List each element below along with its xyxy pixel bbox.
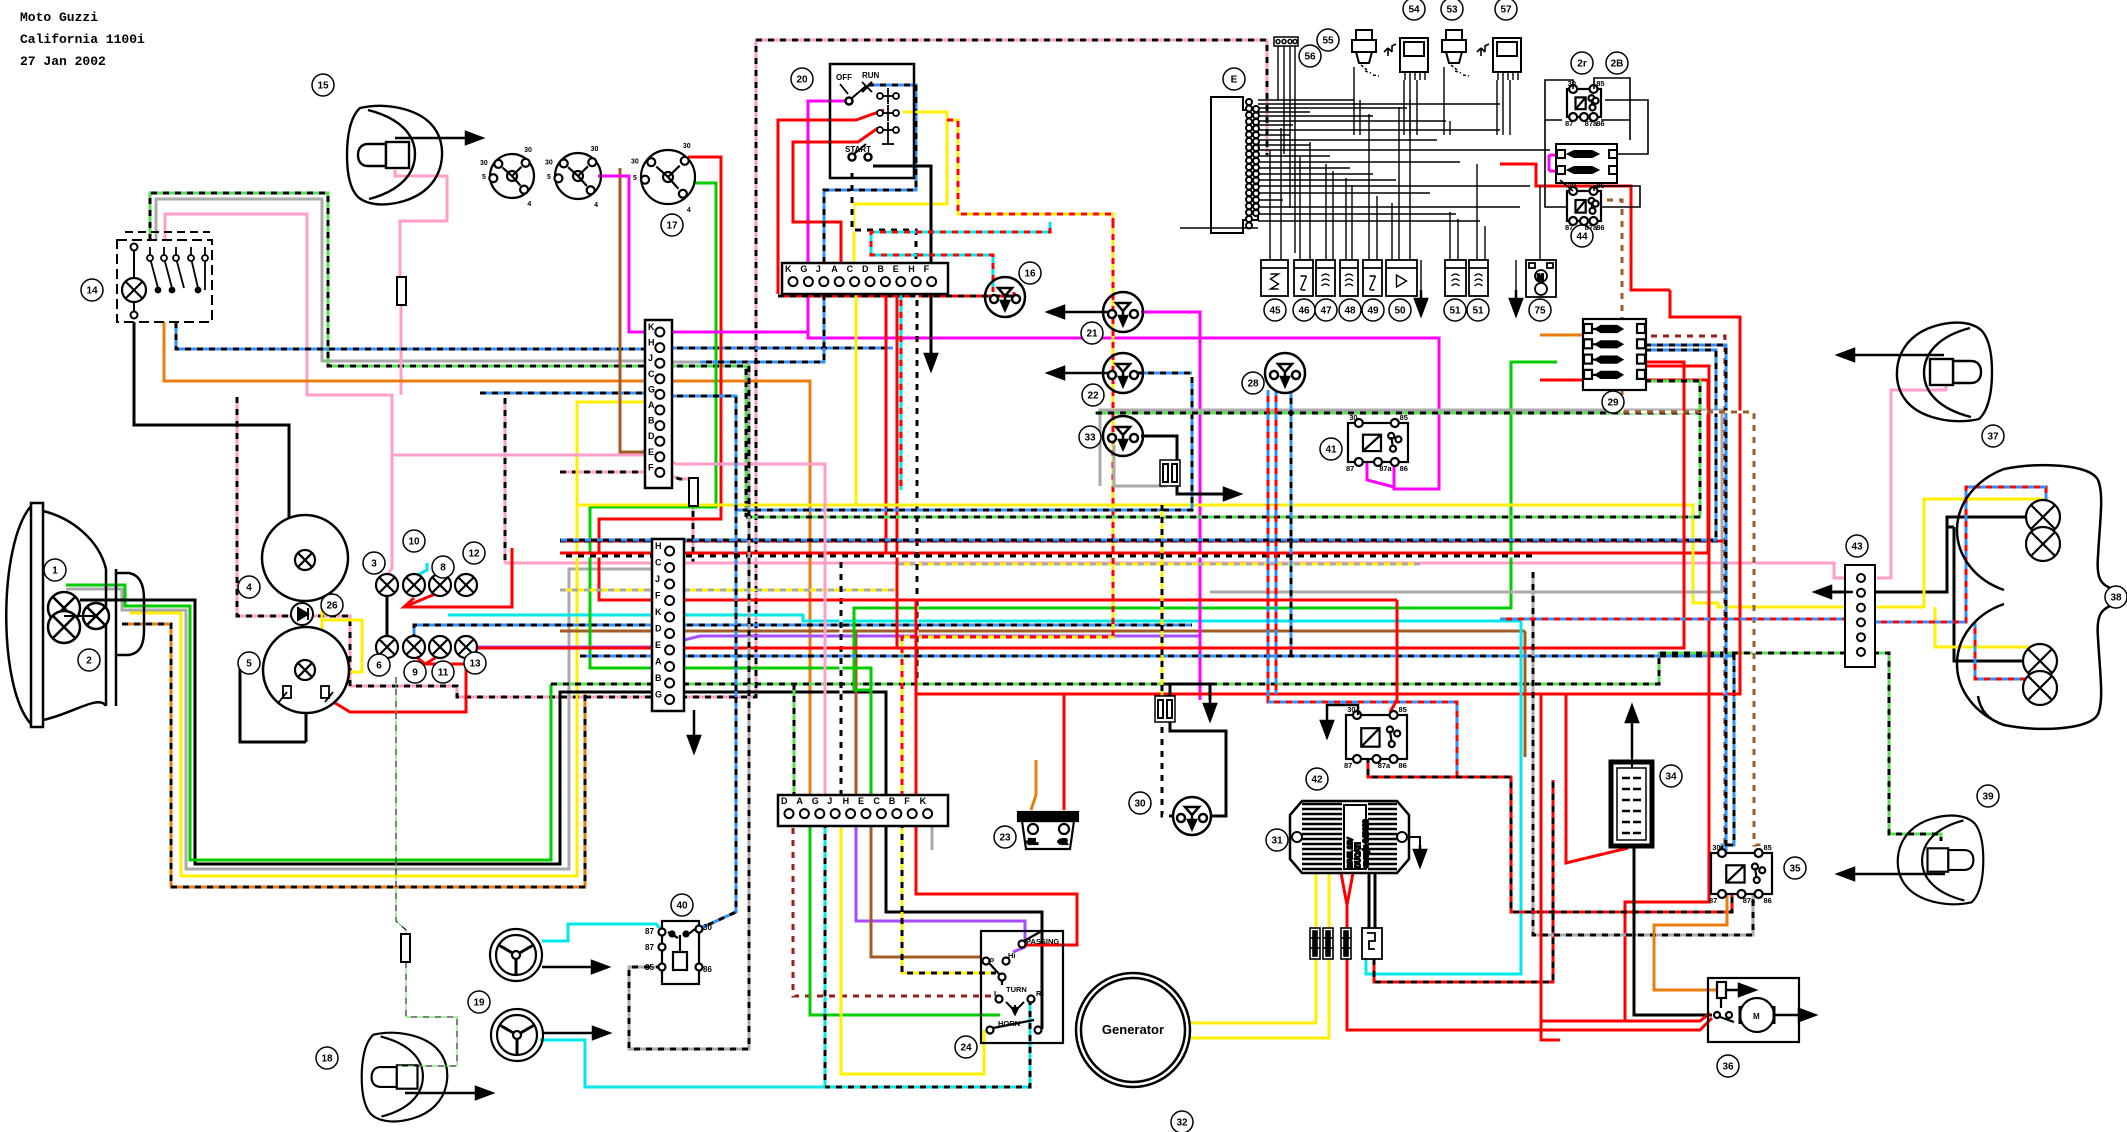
svg-text:Moto Guzzi: Moto Guzzi (20, 10, 98, 25)
headlight city bulb (83, 603, 109, 629)
svg-text:27 Jan 2002: 27 Jan 2002 (20, 54, 106, 69)
label 2r (1571, 52, 1593, 74)
label 34 (1660, 765, 1682, 787)
wire magenta indicator 21 (1141, 312, 1200, 700)
wire black/white lamp30 (1162, 721, 1173, 816)
wire violet right (668, 636, 1199, 647)
arrow signal 39 (1838, 868, 1945, 880)
arrow fuse33 (1200, 488, 1240, 500)
connector block (1310, 928, 1320, 959)
wire red/black 87a (1368, 757, 1732, 912)
wire magenta ignition (808, 101, 1439, 489)
wire yellow tail top (1848, 499, 2042, 607)
tail bulb 2a (2023, 644, 2057, 678)
wire red/blue tail bottom (1975, 622, 2046, 679)
wire blue/black fuse2 out (1645, 345, 1726, 853)
svg-text:3: 3 (1849, 643, 1854, 652)
sensor 51b (1469, 260, 1488, 296)
svg-text:85: 85 (1398, 705, 1406, 714)
svg-text:D: D (648, 431, 655, 441)
svg-text:F: F (655, 591, 661, 601)
svg-text:53: 53 (1446, 5, 1458, 16)
svg-text:36: 36 (1722, 1062, 1734, 1073)
svg-text:29: 29 (1607, 398, 1619, 409)
fuse pink (397, 277, 406, 305)
tachometer 5 (263, 627, 349, 713)
svg-text:2r: 2r (1577, 59, 1587, 70)
sensor 48 (1340, 260, 1358, 296)
svg-text:49: 49 (1367, 306, 1379, 317)
wire yellow drop strip (855, 294, 858, 505)
label 8 (432, 556, 454, 578)
svg-text:C: C (847, 264, 854, 274)
connector strip upper 16 (782, 263, 948, 294)
svg-text:87: 87 (1709, 896, 1717, 905)
wire maroon/white TURN L (793, 810, 999, 996)
wire red/cyan drop (900, 294, 903, 490)
wire black lamp30 right (1170, 721, 1226, 816)
svg-text:57: 57 (1500, 5, 1512, 16)
svg-text:19: 19 (473, 998, 485, 1009)
warning lamp bottom 6 (376, 636, 398, 658)
wire red PASSING (916, 810, 1077, 945)
svg-text:22: 22 (1087, 391, 1099, 402)
wire black/white below strip (916, 294, 919, 680)
svg-text:California 1100i: California 1100i (20, 32, 145, 47)
arrow lamp30 (1204, 700, 1216, 720)
svg-text:86: 86 (1400, 464, 1408, 473)
svg-text:24: 24 (960, 1043, 972, 1054)
label 45 (1264, 299, 1286, 321)
wire pink/black to resistor (665, 474, 689, 479)
wire pink/black to 17F (560, 471, 652, 474)
svg-text:9: 9 (412, 668, 418, 679)
tail light 38 (1957, 465, 2115, 729)
wire black relay42 30 (1327, 705, 1358, 715)
wire cyan lamp 10 (414, 563, 427, 592)
svg-text:54: 54 (1408, 5, 1420, 16)
label 18 (316, 1047, 338, 1069)
label 9 (404, 661, 426, 683)
round connector C (631, 143, 695, 214)
wire black battery to starter (1634, 845, 1712, 1015)
svg-text:28: 28 (1247, 379, 1259, 390)
wire orange (164, 322, 810, 795)
wire green/black J out (665, 366, 746, 517)
wire orange fuse1 (1540, 334, 1583, 337)
bulb link (64, 615, 96, 617)
indicator lamp 22 (1103, 353, 1143, 393)
fuse ind 33 (1160, 460, 1180, 486)
svg-text:C: C (873, 796, 880, 806)
svg-text:5: 5 (547, 174, 551, 181)
wire red regulator out2 (1347, 873, 1353, 905)
wire grey (156, 199, 652, 361)
wire grey through J (665, 361, 749, 364)
wire black HORN btn (886, 810, 1042, 1029)
svg-text:55: 55 (1322, 36, 1334, 47)
round connector A (480, 147, 534, 208)
warning lamp bottom 11 (429, 636, 451, 658)
wire yellow branch (322, 620, 362, 672)
fuse signal 18 (401, 934, 410, 962)
svg-text:85: 85 (1596, 79, 1604, 88)
wire black tail 2b (1947, 526, 1954, 529)
label 31 (1266, 829, 1288, 851)
svg-text:87a: 87a (1379, 464, 1392, 473)
arrow horn 1 (542, 961, 608, 973)
wire #55e050 (396, 677, 406, 934)
diode symbol 26 (291, 603, 313, 625)
svg-text:85: 85 (645, 963, 654, 972)
connector 4pin (1274, 37, 1298, 46)
wire cyan long (448, 615, 1521, 621)
main fuse 34 (1611, 758, 1652, 846)
wire black fuse arrow (1177, 484, 1228, 494)
wire red below strip (885, 294, 888, 553)
svg-text:G: G (648, 384, 655, 394)
label 37 (1982, 425, 2004, 447)
headlight low beam bulb (48, 611, 80, 643)
resistor below 17 (689, 478, 698, 506)
ECU connector E (1211, 97, 1259, 233)
label 21 (1081, 322, 1103, 344)
svg-text:D: D (862, 264, 869, 274)
label 30 (1129, 792, 1151, 814)
arrow ignition ground (925, 300, 937, 370)
wire red/blue 28a (1268, 390, 1511, 777)
indicator lamp 28 (1265, 353, 1305, 393)
wire brown to strip H (855, 631, 858, 795)
svg-text:42: 42 (1311, 775, 1323, 786)
svg-text:Generator: Generator (1102, 1022, 1164, 1037)
svg-text:B: B (877, 264, 884, 274)
svg-text:30: 30 (631, 159, 639, 166)
title text (20, 10, 145, 69)
svg-text:48: 48 (1344, 306, 1356, 317)
wire red fuse3b (1625, 366, 1709, 1021)
label 53 (1441, 0, 1463, 20)
tail bulb 1a (2026, 500, 2060, 534)
warning lamp bottom 13 (455, 636, 477, 658)
svg-text:OFF: OFF (836, 73, 852, 82)
svg-text:38: 38 (2110, 593, 2122, 604)
svg-text:46: 46 (1298, 306, 1310, 317)
wire pink to 17E (392, 454, 652, 457)
wire black/white 556 (560, 555, 1535, 558)
wire magenta RC2 (598, 176, 808, 332)
wire red/blue 28b (1275, 390, 1278, 694)
wire brown Lo (871, 810, 982, 957)
svg-text:28V/1 12V: 28V/1 12V (1347, 837, 1354, 868)
arrow regulator ground (1414, 845, 1426, 866)
fuse bank 29 (1583, 319, 1646, 390)
indicator lamp 21 (1103, 292, 1143, 332)
wire grey loop 410 (1100, 410, 1722, 592)
relay 41 (1346, 413, 1408, 473)
wire yellow headlight bundle (130, 402, 659, 876)
svg-text:6: 6 (1849, 569, 1854, 578)
label 48 (1339, 299, 1361, 321)
wire brown/white relayB (1601, 200, 1759, 853)
svg-text:D: D (781, 796, 788, 806)
svg-text:R: R (1036, 989, 1042, 998)
wire black tail 1 (1875, 517, 2026, 592)
wire blue/black H through (665, 347, 893, 350)
wire violet lamp13 (466, 646, 652, 649)
svg-text:51: 51 (1449, 306, 1461, 317)
turn signal 39 (1898, 816, 1984, 905)
label 20 (791, 68, 813, 90)
wire pink below fuse (400, 306, 403, 395)
warning lamp top 12 (455, 574, 477, 596)
svg-text:A: A (655, 657, 662, 667)
wire black tail 2 (1954, 527, 2024, 661)
speedo bulb (295, 550, 315, 570)
tail bulb 1b (2026, 527, 2060, 561)
svg-text:E: E (1231, 75, 1238, 86)
wire violet Hi (856, 810, 1025, 952)
svg-text:A: A (796, 796, 803, 806)
warning lamp top 8 (429, 574, 451, 596)
wire black/white to strip J (840, 556, 843, 795)
svg-text:14: 14 (86, 286, 98, 297)
turn signal 37 (1897, 323, 1992, 422)
svg-text:F: F (924, 264, 930, 274)
parking lamp in switch (122, 278, 146, 302)
fuse oil lamp (1155, 696, 1175, 722)
wire red/black 541 (560, 540, 1723, 543)
svg-text:H: H (843, 796, 850, 806)
label 3 (363, 552, 385, 574)
wire yellow/black oil (1161, 505, 1164, 698)
svg-text:17: 17 (666, 221, 678, 232)
wire red starter 1 (1541, 694, 1710, 1021)
svg-text:A: A (648, 400, 655, 410)
svg-text:30: 30 (524, 147, 532, 154)
label 15 (312, 74, 334, 96)
svg-text:23: 23 (999, 833, 1011, 844)
wire blue/black to ind28 (1290, 392, 1293, 656)
svg-text:87: 87 (645, 943, 654, 952)
wire green/black to J (150, 193, 652, 366)
wire cyan horn1 (542, 924, 662, 941)
svg-text:87: 87 (1565, 223, 1573, 232)
wire green to strip E (870, 690, 873, 795)
label 4 (238, 576, 260, 598)
svg-text:30: 30 (1712, 843, 1720, 852)
wire yellow/black switch common (902, 810, 996, 973)
connector block (1323, 928, 1333, 959)
wire brown RC2 to 17D (620, 168, 655, 452)
indicator lamp 30 (1173, 797, 1211, 835)
svg-text:5: 5 (246, 659, 252, 670)
wire red battery (1063, 694, 1066, 810)
sensor 51a (1445, 260, 1466, 296)
fuse pair box (1556, 144, 1617, 183)
svg-text:30: 30 (1134, 799, 1146, 810)
label 26 (321, 594, 343, 616)
arrow indicator 21 (1048, 306, 1112, 318)
svg-text:PASSING: PASSING (1026, 937, 1059, 946)
wire black headlight ground (80, 600, 886, 864)
label 19 (468, 991, 490, 1013)
svg-text:51: 51 (1472, 306, 1484, 317)
fuel pump 75 (1526, 260, 1556, 297)
label 16 (1019, 262, 1041, 284)
arrow fuse 34 (1626, 706, 1638, 758)
wire green/black rear signal (1861, 653, 1941, 841)
svg-text:13: 13 (469, 659, 481, 670)
label 51 (1444, 299, 1466, 321)
label 17 (661, 214, 683, 236)
wire red lamp bus (404, 548, 512, 607)
arrow starter (1774, 1009, 1815, 1021)
connector block (1341, 928, 1351, 959)
svg-text:M: M (1537, 273, 1544, 282)
wire grey ind33 (1114, 445, 1167, 486)
ignition coil 2 (1442, 30, 1469, 76)
wire black fuse30 (1170, 684, 1210, 700)
svg-text:5: 5 (633, 175, 637, 182)
svg-text:M: M (1753, 1012, 1760, 1021)
arrow solenoid (1726, 984, 1755, 996)
wire pink rear signal 27 (1877, 383, 1946, 578)
svg-text:34: 34 (1665, 772, 1677, 783)
wire red relays (1500, 164, 1670, 290)
svg-text:56: 56 (1304, 52, 1316, 63)
wire orange/black headlight bundle (122, 624, 585, 887)
svg-text:30: 30 (545, 160, 553, 167)
ignition coil 54 (1352, 30, 1379, 76)
wire red starter 2 (1541, 1021, 1560, 1040)
ignition switch 20 (830, 64, 914, 178)
label 47 (1315, 299, 1337, 321)
svg-text:6: 6 (376, 661, 382, 672)
label 13 (464, 652, 486, 674)
label 1 (44, 559, 66, 581)
svg-text:energia 343629: energia 343629 (1363, 819, 1370, 868)
wire green/black bundle main (551, 653, 1845, 684)
turn signal lamp 15 (347, 106, 442, 205)
indicator lamp 16 (985, 277, 1025, 317)
wire black tacho (305, 713, 308, 742)
wire blue/black to G (480, 392, 652, 395)
svg-text:30: 30 (1349, 413, 1357, 422)
horn 1 (490, 929, 542, 981)
svg-text:DUCATI: DUCATI (1355, 842, 1362, 868)
svg-text:30: 30 (1347, 705, 1355, 714)
arrow relay42 (1321, 708, 1333, 737)
wire red battery feed (1566, 694, 1628, 863)
relay 42 (1344, 705, 1407, 770)
svg-text:4: 4 (687, 207, 691, 214)
label E (1223, 68, 1245, 90)
wire red/black below strip edge (778, 292, 1014, 296)
light switch 14 (117, 232, 212, 322)
wire blue/black 656 (580, 656, 1734, 853)
wire black/white start (852, 167, 916, 263)
svg-text:K: K (648, 322, 655, 332)
generator 32 (1076, 973, 1190, 1087)
svg-text:K: K (655, 607, 662, 617)
svg-text:G: G (800, 264, 807, 274)
svg-text:87a: 87a (1743, 896, 1756, 905)
svg-text:86: 86 (703, 965, 712, 974)
svg-text:4: 4 (594, 202, 598, 209)
wire magenta bracket (1548, 155, 1551, 171)
connector strip lower (778, 795, 948, 826)
sensor 49 (1363, 260, 1382, 296)
svg-text:75: 75 (1534, 306, 1546, 317)
arrow signal 15 (395, 132, 482, 144)
label 2B (1606, 52, 1628, 74)
svg-text:E: E (648, 447, 654, 457)
svg-text:2B: 2B (1611, 59, 1624, 70)
wire orange battery (1031, 760, 1036, 810)
wire yellow regulator 2 (1188, 873, 1329, 1038)
label 32 (1171, 1111, 1193, 1132)
label 36 (1717, 1055, 1739, 1077)
wire cyan regulator (1366, 621, 1521, 974)
wire green/black to strip D (793, 684, 796, 795)
arrow horn 2 (543, 1027, 609, 1039)
wire blue/black flasher 30 (665, 396, 736, 929)
svg-text:4: 4 (1849, 628, 1854, 637)
indicator lamp 33 (1103, 416, 1143, 456)
wire blue/black ignition (824, 85, 916, 263)
wire yellow HORN (841, 810, 984, 1074)
ground arrow below connector (688, 710, 700, 752)
svg-text:4: 4 (246, 583, 252, 594)
wire blue/black 510 (736, 377, 1192, 510)
svg-text:11: 11 (438, 668, 449, 679)
svg-text:J: J (655, 574, 660, 584)
wire yellow/grey J right (684, 564, 1420, 590)
svg-text:39: 39 (1982, 792, 1994, 803)
regulator ground (1407, 837, 1420, 850)
wire green pinA to fusebank (684, 362, 1557, 690)
svg-text:H: H (655, 541, 662, 551)
svg-text:H: H (908, 264, 915, 274)
wire red/blue into pin2 (1500, 618, 1845, 621)
svg-text:B: B (648, 416, 655, 426)
label 55 (1317, 29, 1339, 51)
label 51 (1467, 299, 1489, 321)
label 46 (1293, 299, 1315, 321)
wire pink/black drop (504, 398, 507, 563)
voltage regulator 31 (1290, 801, 1409, 873)
svg-text:44: 44 (1576, 232, 1588, 243)
arrow connector 43 (1815, 586, 1853, 598)
label 6 (368, 654, 390, 676)
wire black tail arrow stub (1821, 591, 1862, 594)
svg-text:RUN: RUN (862, 71, 880, 80)
svg-text:10: 10 (408, 537, 420, 548)
sensor 45 (1261, 260, 1288, 296)
sensor 46 (1294, 260, 1313, 296)
wire yellow speedo-tacho (313, 565, 322, 668)
wire black regulator a (1368, 873, 1371, 928)
sensor 50 (1386, 260, 1417, 296)
label 54 (1403, 0, 1425, 20)
warning lamp top 3 (376, 574, 398, 596)
svg-text:26: 26 (326, 601, 338, 612)
label 57 (1495, 0, 1517, 20)
svg-text:F: F (904, 796, 910, 806)
wire pink/black below resistor (692, 499, 695, 563)
label 40 (671, 894, 693, 916)
